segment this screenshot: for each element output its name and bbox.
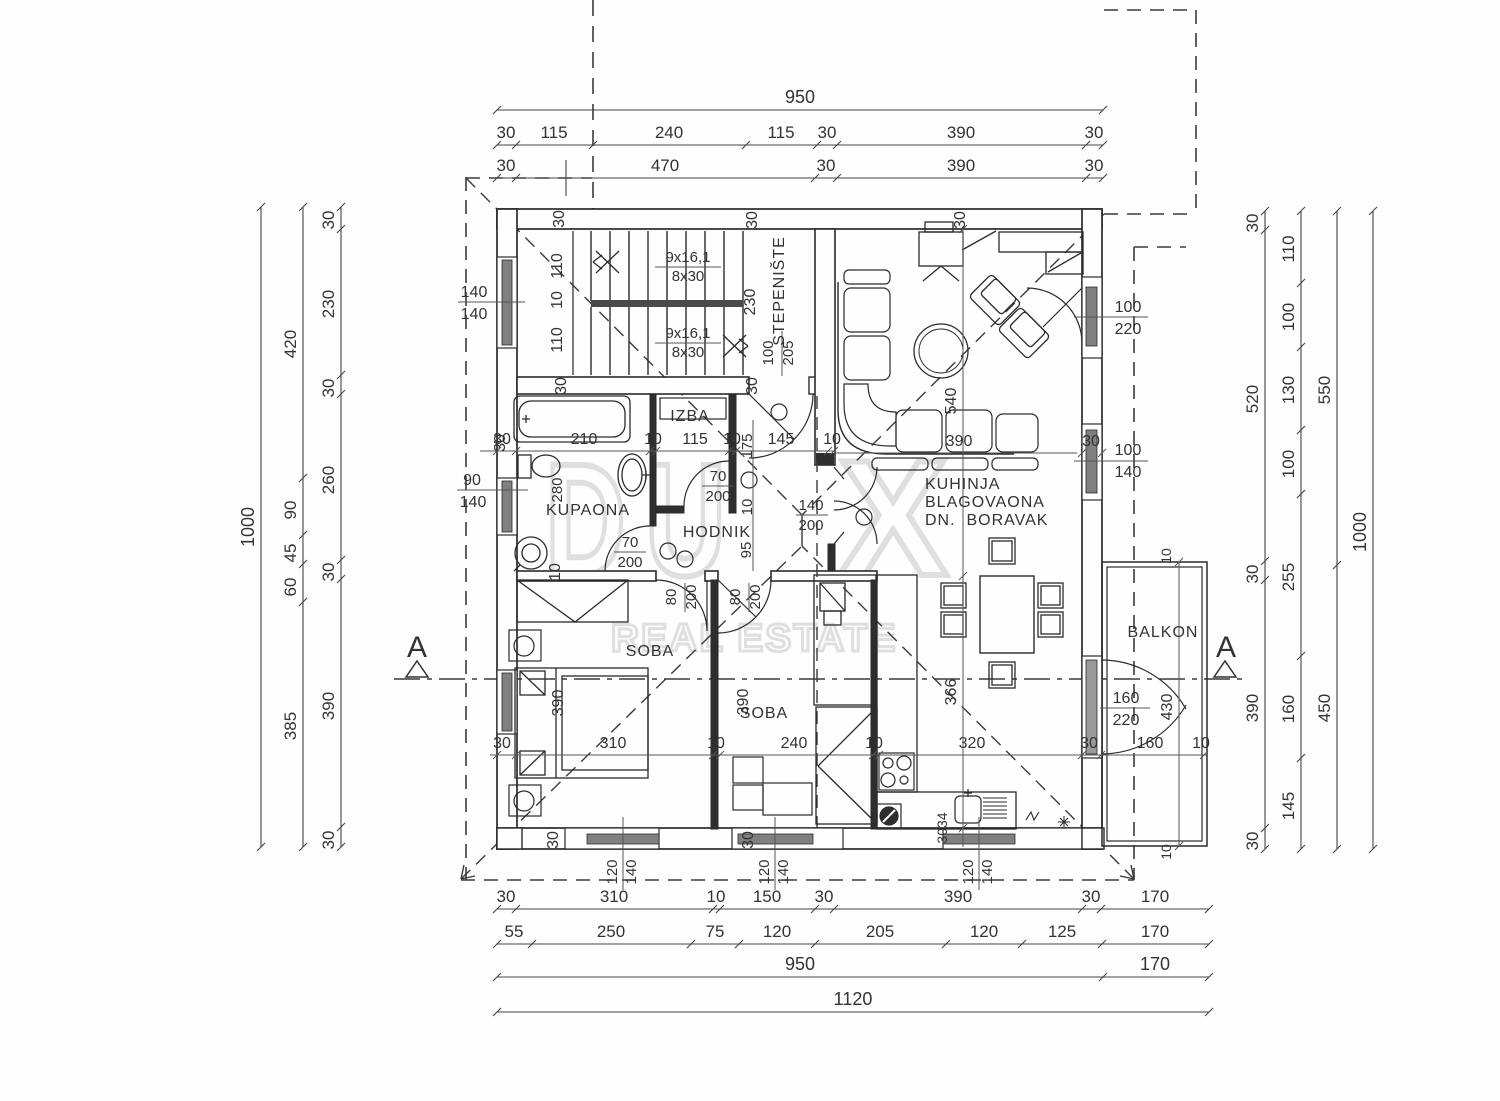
section marker A right triangle — [1214, 661, 1236, 677]
svg-text:30: 30 — [744, 377, 761, 395]
svg-text:170: 170 — [1141, 922, 1169, 941]
label 140/200 kitchen door — [798, 497, 823, 534]
svg-text:30: 30 — [319, 379, 338, 398]
svg-text:30: 30 — [1085, 123, 1104, 142]
window right kitchen — [1082, 424, 1102, 500]
svg-text:30: 30 — [553, 377, 570, 395]
roof ridge — [801, 515, 803, 546]
window right terrace door glazing — [1082, 277, 1102, 358]
interior wall stairwell-living — [815, 229, 835, 465]
interior wall hodnik-kitchen lower stub — [828, 544, 835, 575]
toilet bathroom — [518, 455, 560, 478]
svg-text:140: 140 — [798, 497, 823, 514]
svg-text:10: 10 — [707, 735, 725, 752]
hodnik vertical dim x753 — [752, 420, 754, 571]
balcony outer rail — [1102, 562, 1207, 846]
svg-text:150: 150 — [753, 887, 781, 906]
dimension chain right C — [1333, 207, 1341, 853]
dimension chain right D 1000 — [1369, 207, 1377, 853]
svg-text:BALKON: BALKON — [1128, 624, 1199, 641]
kitchen counter bottom — [877, 792, 1016, 829]
interior dim line y451 — [480, 447, 838, 455]
section marker A left triangle — [406, 661, 428, 677]
label 100/220 right window — [1115, 299, 1142, 338]
svg-text:140: 140 — [623, 859, 640, 884]
svg-text:1000: 1000 — [238, 507, 258, 547]
dish rack hatch — [983, 798, 1007, 818]
svg-text:30: 30 — [497, 123, 516, 142]
label 100/140 right window — [1115, 442, 1142, 481]
svg-text:160: 160 — [1113, 690, 1140, 707]
svg-text:90: 90 — [281, 501, 300, 520]
svg-text:10: 10 — [644, 431, 662, 448]
balcony door opening — [1082, 656, 1102, 758]
svg-text:70: 70 — [622, 534, 639, 551]
svg-text:210: 210 — [571, 431, 598, 448]
svg-text:120: 120 — [763, 922, 791, 941]
svg-text:SOBA: SOBA — [626, 643, 674, 660]
door bathroom arc — [605, 526, 650, 571]
svg-text:110: 110 — [1279, 235, 1298, 262]
interior wall stair door cap — [809, 377, 816, 394]
corner block bottom-right — [1082, 828, 1104, 849]
label 70/200 bathroom door — [617, 534, 642, 571]
svg-text:30: 30 — [817, 156, 836, 175]
svg-text:220: 220 — [1115, 321, 1142, 338]
soba2 desk rects — [733, 757, 812, 815]
interior wall partition soba1-soba2 — [711, 580, 718, 829]
interior vertical dim stair x573 labels — [549, 253, 566, 353]
soba1 nightstand bottom — [509, 785, 541, 816]
svg-text:950: 950 — [785, 87, 815, 107]
svg-text:140: 140 — [979, 859, 996, 884]
dimension chain bottom row2 — [493, 940, 1213, 948]
window bottom soba1 — [565, 828, 659, 849]
corner sofa cushions vertical — [844, 288, 896, 446]
svg-text:110: 110 — [549, 253, 566, 279]
svg-text:200: 200 — [747, 584, 764, 609]
svg-text:10: 10 — [865, 735, 883, 752]
svg-text:10: 10 — [547, 563, 564, 581]
svg-text:120: 120 — [960, 859, 977, 884]
svg-text:30: 30 — [1082, 433, 1100, 450]
svg-text:420: 420 — [281, 330, 300, 358]
roof overhang dashed outline top edge partial — [466, 177, 592, 179]
svg-text:30: 30 — [1082, 887, 1101, 906]
svg-text:70: 70 — [710, 468, 727, 485]
svg-text:200: 200 — [683, 584, 700, 609]
svg-text:30: 30 — [744, 211, 761, 229]
svg-text:390: 390 — [947, 156, 975, 175]
outer wall bottom — [497, 828, 1102, 849]
svg-text:80: 80 — [727, 589, 744, 606]
window left stairwell — [497, 257, 517, 348]
dimension chain top 950 — [493, 106, 1107, 114]
label 160/220 balcony door — [1113, 690, 1140, 729]
svg-text:140: 140 — [461, 306, 488, 323]
svg-text:100: 100 — [1115, 299, 1142, 316]
kitchen sink rounded — [955, 789, 981, 823]
kitchen sink unit with dark circle — [877, 804, 901, 828]
dimension chain top row2 — [493, 141, 1107, 149]
svg-text:170: 170 — [1140, 954, 1170, 974]
svg-text:240: 240 — [781, 735, 808, 752]
svg-text:8x30: 8x30 — [672, 344, 705, 361]
dimension chain bottom row1 — [493, 905, 1213, 913]
svg-text:140: 140 — [1115, 464, 1142, 481]
svg-text:A: A — [1216, 631, 1236, 664]
dimension chain left row2 — [299, 203, 307, 851]
svg-text:450: 450 — [1315, 694, 1334, 722]
svg-text:390: 390 — [550, 690, 567, 717]
faucet star symbol — [1058, 816, 1070, 828]
svg-text:75: 75 — [706, 922, 725, 941]
label 100/205 stair door rotated — [760, 340, 797, 365]
svg-text:10: 10 — [1192, 735, 1210, 752]
corner block bottom-left — [497, 828, 522, 849]
svg-text:30: 30 — [1085, 156, 1104, 175]
door knob circles bathroom — [660, 543, 676, 559]
svg-text:125: 125 — [1048, 922, 1076, 941]
svg-text:110: 110 — [549, 327, 566, 353]
svg-text:30: 30 — [1243, 565, 1262, 584]
hip arrowhead bottom-left — [461, 865, 475, 879]
svg-text:10: 10 — [549, 291, 566, 309]
outer wall right — [1082, 209, 1102, 849]
dimension chain right A — [1261, 207, 1269, 853]
stair label 9x16,1 8x30 upper — [665, 249, 710, 285]
wall 30 labels rotated — [492, 210, 969, 849]
dimension chain left 1000 — [257, 203, 265, 851]
svg-text:160: 160 — [1137, 735, 1164, 752]
armchair 1 rotated — [969, 274, 1021, 326]
svg-text:A: A — [407, 631, 427, 664]
label 80/200 soba2 door rotated — [727, 584, 764, 609]
svg-text:100: 100 — [1279, 450, 1298, 478]
roof overhang dashed right top corner horizontal — [1134, 246, 1186, 248]
svg-text:30: 30 — [493, 735, 511, 752]
svg-text:140: 140 — [775, 859, 792, 884]
window left soba1 — [497, 670, 517, 734]
door izba arc — [684, 461, 729, 506]
svg-text:140: 140 — [461, 284, 488, 301]
svg-text:120: 120 — [756, 859, 773, 884]
kitchen counter vertical — [877, 575, 917, 792]
svg-text:115: 115 — [682, 431, 708, 448]
svg-text:KUHINJA: KUHINJA — [925, 476, 1000, 493]
dimension chain left row3 — [337, 203, 345, 851]
living room 390 dim — [836, 449, 1106, 457]
svg-text:470: 470 — [651, 156, 679, 175]
svg-text:30: 30 — [492, 434, 509, 452]
svg-text:10: 10 — [707, 887, 726, 906]
door soba1 arc and leaf — [656, 580, 707, 631]
interior wall A dark end block — [816, 453, 834, 465]
izba shelf — [660, 398, 726, 419]
svg-text:STEPENIŠTE: STEPENIŠTE — [769, 236, 788, 346]
svg-text:390: 390 — [946, 433, 973, 450]
svg-text:175: 175 — [739, 433, 756, 458]
svg-text:140: 140 — [460, 494, 487, 511]
stair mid rail thick band — [591, 300, 743, 307]
svg-text:550: 550 — [1315, 376, 1334, 404]
roof hip dashed from top-right corner — [802, 214, 1104, 515]
soba2 wardrobe — [816, 707, 877, 824]
window bottom soba2 — [732, 828, 843, 849]
soba2 bed — [814, 575, 876, 705]
svg-text:30: 30 — [818, 123, 837, 142]
svg-text:SOBA: SOBA — [740, 705, 788, 722]
svg-text:430: 430 — [1159, 694, 1176, 721]
svg-text:HODNIK: HODNIK — [683, 524, 751, 541]
stair direction mark lower — [723, 335, 748, 357]
svg-text:BLAGOVAONA: BLAGOVAONA — [925, 494, 1045, 511]
dimension chain bottom row4 1120 — [493, 1008, 1213, 1016]
stair label 9x16,1 8x30 lower — [665, 325, 710, 361]
interior wall izba bottom left piece — [656, 506, 684, 513]
sofa seat row below line — [872, 458, 1038, 470]
interior wall izba right upper — [729, 394, 736, 513]
svg-text:115: 115 — [540, 123, 567, 142]
zigzag symbol — [1026, 812, 1039, 820]
door living terrace arc and leaf — [1027, 288, 1082, 343]
svg-text:230: 230 — [742, 289, 759, 316]
interior wall stairwell bottom — [517, 377, 749, 394]
stair left edge line — [572, 231, 574, 375]
svg-text:255: 255 — [1279, 563, 1298, 591]
svg-text:30: 30 — [545, 831, 562, 849]
door balcony double arcs — [1101, 660, 1186, 754]
dimension chain bottom row3 950/170 — [493, 973, 1213, 981]
upper floor outline dashed top at page top — [1104, 9, 1196, 11]
svg-text:30: 30 — [497, 156, 516, 175]
interior dim line y755 — [490, 751, 1208, 759]
svg-text:80: 80 — [663, 589, 680, 606]
window label 120/140 soba2 — [774, 817, 776, 890]
svg-text:540: 540 — [943, 388, 960, 415]
upper floor wall projection dashed — [816, 396, 818, 828]
svg-text:30: 30 — [815, 887, 834, 906]
svg-text:260: 260 — [319, 466, 338, 494]
upper floor outline dashed horizontal at top right — [1104, 213, 1196, 215]
door stairwell arc — [749, 394, 813, 458]
roof overhang dashed outline left edge — [465, 177, 467, 880]
svg-text:KUPAONA: KUPAONA — [546, 502, 630, 519]
svg-text:310: 310 — [600, 887, 628, 906]
svg-text:205: 205 — [866, 922, 894, 941]
svg-text:1000: 1000 — [1350, 512, 1370, 552]
door knob circle kitchen — [856, 509, 872, 525]
svg-text:30: 30 — [1243, 214, 1262, 233]
svg-text:115: 115 — [767, 123, 794, 142]
svg-text:10: 10 — [823, 431, 841, 448]
svg-text:390: 390 — [319, 692, 338, 720]
svg-text:30: 30 — [319, 211, 338, 230]
svg-text:280: 280 — [549, 477, 566, 502]
balcony inner rail — [1107, 567, 1202, 841]
window label 120/140 kitchen — [978, 817, 980, 890]
svg-text:145: 145 — [1279, 792, 1298, 820]
door knob circle stairwell — [771, 404, 787, 420]
interior wall bath-soba horizontal segment A — [517, 571, 656, 581]
svg-text:950: 950 — [785, 954, 815, 974]
svg-text:170: 170 — [1141, 887, 1169, 906]
svg-text:D: D — [545, 431, 626, 609]
svg-text:30: 30 — [319, 831, 338, 850]
roof hip dashed from bottom-right corner — [802, 546, 1134, 879]
stair treads lower flight — [591, 307, 724, 375]
svg-text:200: 200 — [798, 517, 823, 534]
svg-text:30: 30 — [319, 563, 338, 582]
roof hip dashed from bottom-left corner — [461, 546, 802, 879]
stair direction mark upper — [593, 251, 619, 273]
svg-text:45: 45 — [281, 544, 300, 563]
svg-text:390: 390 — [947, 123, 975, 142]
soba1 bed — [515, 668, 648, 778]
dimension chain top row3 — [493, 160, 1107, 196]
svg-text:10: 10 — [739, 499, 756, 516]
svg-text:8x30: 8x30 — [672, 268, 705, 285]
window left bathroom — [497, 478, 517, 535]
door hodnik-kitchen double arcs — [834, 467, 877, 544]
svg-text:9x16,1: 9x16,1 — [665, 325, 710, 342]
svg-text:55: 55 — [505, 922, 524, 941]
interior wall between doors segment B — [705, 571, 718, 581]
round coffee table — [914, 324, 968, 378]
dimension chain right B — [1297, 207, 1305, 853]
dining chairs — [941, 538, 1063, 688]
svg-text:220: 220 — [1113, 712, 1140, 729]
svg-text:200: 200 — [617, 554, 642, 571]
interior wall bathroom right — [650, 394, 656, 526]
svg-text:200: 200 — [705, 488, 730, 505]
svg-text:130: 130 — [1279, 376, 1298, 404]
svg-text:9x16,1: 9x16,1 — [665, 249, 710, 266]
armchair 2 rotated — [998, 307, 1050, 359]
svg-text:30: 30 — [1080, 735, 1098, 752]
watermark DUX — [545, 426, 948, 660]
hip arrowhead bottom-right — [1120, 865, 1134, 879]
svg-text:120: 120 — [604, 859, 621, 884]
stair treads upper flight — [591, 231, 743, 375]
svg-text:10: 10 — [1158, 844, 1174, 860]
svg-text:240: 240 — [655, 123, 683, 142]
svg-text:IZBA: IZBA — [670, 408, 710, 425]
room label KUHINJA BLAGOVAONA DN BORAVAK — [925, 476, 1048, 529]
svg-text:3034: 3034 — [934, 812, 950, 843]
bathtub — [514, 396, 630, 442]
window bottom kitchen — [943, 828, 1082, 849]
interior vertical dim kitchen x963 — [959, 225, 967, 847]
TV cabinet living room — [919, 222, 963, 281]
svg-text:10: 10 — [1158, 548, 1174, 564]
svg-text:366: 366 — [943, 679, 960, 706]
svg-text:60: 60 — [281, 578, 300, 597]
svg-text:100: 100 — [1115, 442, 1142, 459]
svg-text:100: 100 — [1279, 303, 1298, 331]
svg-text:30: 30 — [551, 210, 568, 228]
bidet circle bathroom — [514, 537, 547, 571]
svg-text:95: 95 — [738, 542, 755, 559]
svg-text:250: 250 — [597, 922, 625, 941]
outer wall left — [497, 209, 517, 849]
svg-text:520: 520 — [1243, 385, 1262, 413]
corner sofa back — [838, 282, 1014, 454]
door soba2 arc and leaf — [718, 580, 771, 633]
label 140/140 left window — [461, 284, 488, 323]
label 90/140 left window — [460, 472, 487, 511]
outer wall top — [497, 209, 1102, 229]
soba1 nightstand top — [509, 630, 541, 661]
centerline dashed vertical at top — [592, 0, 594, 229]
interior wall hodnik-soba2 segment C — [771, 571, 877, 581]
svg-text:90: 90 — [463, 472, 481, 489]
roof hip dashed from top-left corner — [466, 178, 802, 515]
svg-text:145: 145 — [768, 431, 795, 448]
upper floor outline dashed vertical at top right — [1195, 10, 1197, 214]
section line A-A — [394, 678, 1245, 680]
roof overhang dashed outline bottom edge — [461, 879, 1134, 881]
svg-text:30: 30 — [497, 887, 516, 906]
washbasin bathroom — [618, 454, 650, 496]
roof overhang dashed right edge — [1133, 247, 1135, 880]
cabinet top-right living room — [962, 231, 1083, 274]
interior wall kitchen left — [871, 580, 877, 829]
dining table — [980, 576, 1034, 653]
svg-text:390: 390 — [1243, 694, 1262, 722]
label 80/200 soba1 door rotated — [663, 584, 700, 609]
balcony 430 dim — [1175, 558, 1183, 850]
svg-text:DN. BORAVAK: DN. BORAVAK — [925, 512, 1048, 529]
svg-text:385: 385 — [281, 712, 300, 740]
soba1 wardrobe — [517, 580, 628, 622]
svg-text:160: 160 — [1279, 695, 1298, 723]
label 70/200 izba door — [705, 468, 730, 505]
svg-text:30: 30 — [740, 831, 757, 849]
svg-text:230: 230 — [319, 290, 338, 318]
window label 120/140 soba1 — [622, 817, 624, 890]
cooktop with burners — [879, 753, 914, 790]
svg-text:390: 390 — [944, 887, 972, 906]
svg-text:1120: 1120 — [834, 989, 873, 1009]
svg-text:120: 120 — [970, 922, 998, 941]
svg-text:310: 310 — [600, 735, 627, 752]
door knob circle izba — [741, 472, 757, 488]
svg-text:30: 30 — [1243, 832, 1262, 851]
corner sofa cushions horizontal — [844, 270, 1038, 452]
